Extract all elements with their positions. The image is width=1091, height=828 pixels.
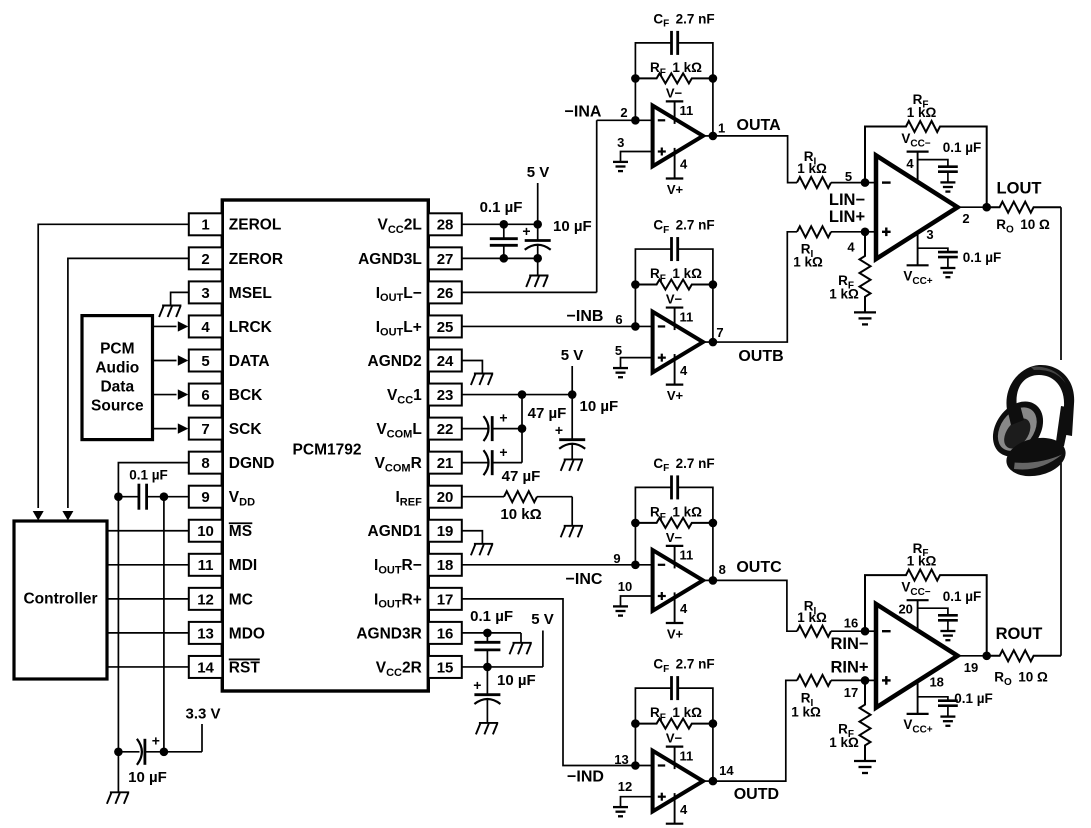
svg-text:20: 20 — [898, 602, 912, 617]
svg-text:AGND3L: AGND3L — [358, 251, 422, 268]
svg-text:1 kΩ: 1 kΩ — [797, 161, 827, 176]
svg-text:2: 2 — [201, 251, 209, 268]
svg-text:RIN−: RIN− — [830, 635, 868, 653]
svg-text:AGND1: AGND1 — [368, 523, 423, 540]
svg-text:10 µF: 10 µF — [580, 398, 619, 415]
svg-text:23: 23 — [437, 387, 454, 404]
svg-text:21: 21 — [437, 455, 454, 472]
svg-text:10 µF: 10 µF — [553, 218, 592, 235]
svg-text:5 V: 5 V — [531, 611, 554, 628]
svg-text:17: 17 — [437, 591, 454, 608]
svg-text:−IND: −IND — [567, 769, 604, 786]
svg-text:1: 1 — [201, 217, 209, 234]
svg-text:20: 20 — [437, 489, 454, 506]
svg-text:Data: Data — [100, 379, 134, 396]
svg-text:14: 14 — [719, 763, 734, 778]
svg-text:10: 10 — [197, 523, 214, 540]
svg-text:10: 10 — [618, 579, 632, 594]
svg-text:3: 3 — [617, 135, 624, 150]
svg-text:OUTC: OUTC — [736, 559, 782, 576]
svg-text:+: + — [522, 223, 530, 239]
svg-text:AGND2: AGND2 — [368, 353, 422, 370]
svg-text:LIN−: LIN− — [829, 191, 865, 209]
svg-text:+: + — [499, 444, 507, 460]
svg-text:0.1 µF: 0.1 µF — [470, 608, 513, 625]
svg-text:6: 6 — [615, 312, 622, 327]
svg-text:9: 9 — [613, 551, 620, 566]
svg-text:19: 19 — [964, 660, 978, 675]
svg-text:14: 14 — [197, 659, 214, 676]
svg-text:MSEL: MSEL — [229, 285, 272, 302]
svg-text:+: + — [499, 409, 507, 425]
svg-text:5: 5 — [845, 169, 852, 184]
svg-text:8: 8 — [719, 562, 726, 577]
svg-text:13: 13 — [614, 752, 628, 767]
svg-text:PCM1792: PCM1792 — [293, 441, 362, 458]
svg-text:16: 16 — [844, 616, 858, 631]
svg-text:26: 26 — [437, 285, 454, 302]
svg-text:5 V: 5 V — [527, 164, 550, 181]
svg-text:1 kΩ: 1 kΩ — [791, 704, 821, 719]
svg-text:6: 6 — [201, 387, 209, 404]
svg-text:DGND: DGND — [229, 455, 275, 472]
svg-text:3: 3 — [926, 227, 933, 242]
svg-text:AGND3R: AGND3R — [356, 625, 421, 642]
svg-text:ZEROL: ZEROL — [229, 217, 282, 234]
svg-text:19: 19 — [437, 523, 454, 540]
svg-text:OUTB: OUTB — [738, 348, 783, 365]
svg-text:12: 12 — [197, 591, 214, 608]
svg-text:7: 7 — [201, 421, 209, 438]
svg-text:OUTD: OUTD — [734, 786, 779, 803]
svg-text:0.1 µF: 0.1 µF — [954, 691, 993, 706]
svg-text:12: 12 — [618, 779, 632, 794]
svg-text:MDO: MDO — [229, 625, 265, 642]
svg-text:10 kΩ: 10 kΩ — [500, 506, 541, 523]
svg-text:0.1 µF: 0.1 µF — [129, 468, 168, 483]
svg-text:3: 3 — [201, 285, 209, 302]
svg-text:22: 22 — [437, 421, 454, 438]
svg-text:47 µF: 47 µF — [502, 468, 541, 485]
svg-text:Controller: Controller — [23, 591, 97, 608]
svg-text:−INC: −INC — [566, 571, 603, 588]
svg-text:BCK: BCK — [229, 387, 263, 404]
svg-text:25: 25 — [437, 319, 454, 336]
svg-text:5: 5 — [201, 353, 209, 370]
svg-text:5: 5 — [615, 343, 622, 358]
svg-text:0.1 µF: 0.1 µF — [480, 199, 523, 216]
svg-text:4: 4 — [847, 240, 855, 255]
svg-text:2: 2 — [620, 105, 627, 120]
svg-text:+: + — [473, 677, 481, 693]
svg-text:10 µF: 10 µF — [128, 769, 167, 786]
svg-text:1: 1 — [718, 120, 725, 135]
svg-text:5 V: 5 V — [561, 347, 584, 364]
svg-text:SCK: SCK — [229, 421, 263, 438]
svg-text:OUTA: OUTA — [737, 117, 782, 134]
svg-text:11: 11 — [198, 557, 214, 574]
svg-text:27: 27 — [437, 251, 454, 268]
svg-text:ROUT: ROUT — [996, 625, 1043, 643]
svg-text:17: 17 — [844, 685, 858, 700]
svg-text:LOUT: LOUT — [997, 180, 1042, 198]
svg-text:+: + — [555, 422, 563, 438]
svg-text:MC: MC — [229, 591, 253, 608]
svg-text:DATA: DATA — [229, 353, 270, 370]
svg-text:ZEROR: ZEROR — [229, 251, 283, 268]
svg-text:9: 9 — [201, 489, 209, 506]
svg-text:10 µF: 10 µF — [497, 672, 536, 689]
svg-text:47 µF: 47 µF — [528, 405, 567, 422]
svg-text:8: 8 — [201, 455, 209, 472]
svg-text:1 kΩ: 1 kΩ — [797, 610, 827, 625]
svg-text:PCM: PCM — [100, 341, 134, 358]
svg-text:16: 16 — [437, 625, 454, 642]
svg-text:18: 18 — [437, 557, 454, 574]
svg-text:7: 7 — [716, 325, 723, 340]
svg-text:24: 24 — [437, 353, 454, 370]
svg-text:0.1 µF: 0.1 µF — [963, 250, 1002, 265]
svg-text:2: 2 — [962, 211, 969, 226]
svg-text:18: 18 — [929, 674, 943, 689]
svg-text:13: 13 — [197, 625, 214, 642]
svg-text:−INA: −INA — [565, 104, 602, 121]
svg-text:LRCK: LRCK — [229, 319, 273, 336]
svg-text:15: 15 — [437, 659, 454, 676]
svg-text:1 kΩ: 1 kΩ — [793, 255, 823, 270]
svg-text:Source: Source — [91, 398, 144, 415]
svg-text:Audio: Audio — [95, 360, 139, 377]
svg-text:4: 4 — [201, 319, 210, 336]
svg-text:28: 28 — [437, 217, 454, 234]
svg-text:4: 4 — [906, 156, 914, 171]
svg-text:LIN+: LIN+ — [829, 208, 865, 226]
svg-text:RIN+: RIN+ — [830, 659, 868, 677]
svg-text:MS: MS — [229, 523, 252, 540]
svg-text:+: + — [152, 732, 160, 748]
svg-text:3.3 V: 3.3 V — [185, 705, 220, 722]
svg-text:−INB: −INB — [567, 308, 604, 325]
svg-text:MDI: MDI — [229, 557, 257, 574]
svg-text:RST: RST — [229, 659, 261, 676]
